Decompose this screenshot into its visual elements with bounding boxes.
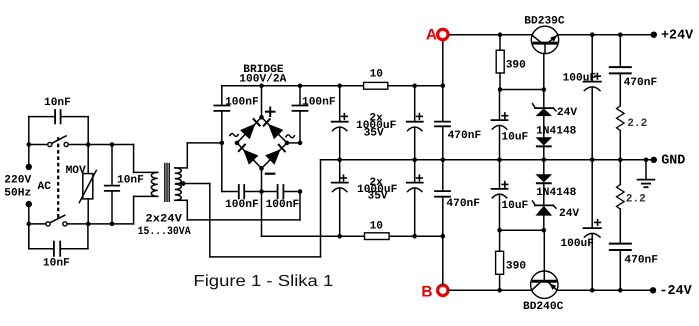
wire bridge - column <box>261 168 263 236</box>
capacitor 470nF mid-bottom <box>435 160 450 236</box>
label 1N4148 top <box>536 125 577 137</box>
node junction bridge+ on rail <box>259 84 264 89</box>
node junction right 100nF on rail <box>298 84 303 89</box>
label 100uF bottom <box>560 238 594 250</box>
label 10nF top <box>44 97 71 109</box>
wire MOV column top <box>87 145 89 174</box>
wire primary bottom lead <box>134 196 158 224</box>
node center tap junction <box>181 181 186 186</box>
label GND <box>661 153 685 168</box>
svg-text:10nF: 10nF <box>44 97 71 109</box>
capacitor 10nF across line <box>105 186 119 191</box>
wire secondary center tap <box>176 183 210 185</box>
svg-text:100nF: 100nF <box>302 96 336 108</box>
label 2x top <box>369 112 383 124</box>
svg-text:470nF: 470nF <box>624 77 658 89</box>
svg-text:470nF: 470nF <box>446 198 480 210</box>
transistor Q1 BD239C <box>531 26 558 53</box>
label 50Hz <box>4 187 31 199</box>
label 2.2 top <box>627 118 647 130</box>
transistor Q2 BD240C <box>531 271 558 298</box>
svg-text:390: 390 <box>506 260 526 272</box>
wire ground rail <box>321 159 654 161</box>
node junction 1000uF-1 top rail <box>337 84 342 89</box>
varistor MOV <box>79 170 96 202</box>
node junction top-left rail <box>27 142 32 147</box>
svg-text:100nF: 100nF <box>225 96 259 108</box>
node A terminal <box>438 29 448 39</box>
label 100V/2A <box>239 73 286 86</box>
wire top bypass loop <box>29 117 88 145</box>
wire top AC line left <box>29 144 48 146</box>
node -24V terminal <box>650 287 656 293</box>
node junction 390 bottom rail <box>497 288 502 293</box>
label 10uF bottom <box>501 200 528 212</box>
label +24V <box>661 29 694 44</box>
svg-text:470nF: 470nF <box>448 130 482 142</box>
svg-text:35V: 35V <box>368 191 388 203</box>
transformer T1 core <box>165 164 169 202</box>
capacitor 10uF top <box>492 90 508 160</box>
node junction 100uF bottom rail <box>590 288 595 293</box>
capacitor 470nF right-bottom <box>610 209 631 290</box>
label 2x bottom <box>369 177 383 189</box>
label MOV <box>66 165 86 177</box>
wire unregulated positive rail <box>222 85 443 87</box>
node +24V terminal <box>651 32 657 38</box>
wire bottom AC line left <box>29 223 46 225</box>
label -24V <box>660 284 693 299</box>
node junction ac-right column <box>298 141 303 146</box>
svg-text:2x24V: 2x24V <box>145 213 182 225</box>
switch S1b bottom pole <box>46 215 67 226</box>
label 100nF top-left <box>225 96 259 108</box>
label 2x24V <box>145 213 182 225</box>
node B terminal <box>438 285 448 295</box>
svg-text:GND: GND <box>661 153 685 168</box>
node junction ac-right on snubber row <box>298 189 303 194</box>
svg-text:10uF: 10uF <box>501 131 528 143</box>
wire center tap to ground rail <box>210 160 321 257</box>
label 35V bottom <box>368 191 388 203</box>
label A <box>426 27 437 44</box>
svg-text:10: 10 <box>370 221 384 233</box>
wire secondary bottom lead <box>175 192 300 220</box>
label BD240C <box>523 301 564 313</box>
label 1000uF bottom <box>357 184 398 196</box>
label 220V <box>4 174 31 186</box>
svg-text:24V: 24V <box>557 107 577 119</box>
svg-text:100nF: 100nF <box>266 199 300 211</box>
label 35V top <box>364 127 384 139</box>
node junction 470nF gnd <box>441 158 446 163</box>
label 10nF bottom <box>43 258 70 270</box>
wire top output rail right <box>559 34 654 36</box>
label 2.2 bottom <box>626 194 646 206</box>
label - bridge <box>266 173 274 175</box>
wire left rail top segment <box>28 117 30 164</box>
diode bridge D2 (ac-right to +) <box>264 119 284 139</box>
node junction 390-10uF bottom <box>497 228 502 233</box>
node junction - on snubber row <box>259 189 264 194</box>
wire left 100nF column <box>221 86 223 143</box>
wire bridge diamond <box>237 117 287 168</box>
node junction diode chain gnd <box>542 158 547 163</box>
diode D5 1N4148 top <box>536 116 553 160</box>
diode bridge D4 (- to ac-right) <box>265 145 285 165</box>
zener diode ZD2 24V <box>533 183 557 230</box>
node junction MOV bottom <box>86 222 91 227</box>
wire bottom AC line right <box>67 223 134 225</box>
capacitor 10nF top bypass <box>55 110 61 123</box>
node junction bottom-left rail <box>27 222 32 227</box>
label 100nF bottom-left <box>225 199 259 211</box>
wire Q1 base down <box>543 54 545 90</box>
svg-text:-24V: -24V <box>660 284 693 299</box>
svg-text:470nF: 470nF <box>624 255 658 267</box>
label 1N4148 bottom <box>536 187 577 199</box>
resistor 2.2 top (zigzag) <box>617 106 625 160</box>
svg-text:15...30VA: 15...30VA <box>138 226 191 238</box>
label 15...30VA <box>138 226 191 238</box>
node GND terminal <box>651 157 657 163</box>
capacitor 10nF bottom bypass <box>54 242 60 256</box>
resistor 390 bottom <box>496 230 504 290</box>
wire right 100nF column <box>299 86 301 143</box>
diode bridge D3 (- to ac-left) <box>239 145 259 165</box>
wire base node line top <box>500 89 544 91</box>
wire top AC line right <box>68 144 133 146</box>
resistor 10 bottom <box>365 233 390 240</box>
label 390 bottom <box>506 260 526 272</box>
node junction 390 top rail <box>498 32 503 37</box>
svg-text:100uF: 100uF <box>560 238 594 250</box>
label 390 top <box>506 60 526 72</box>
capacitor 100nF bridge top-left <box>214 106 229 111</box>
label 470nF right-top <box>624 77 658 89</box>
label ~ left <box>229 134 238 137</box>
label 10uF top <box>501 131 528 143</box>
node junction 10uF gnd <box>497 158 502 163</box>
svg-text:Figure 1 - Slika 1: Figure 1 - Slika 1 <box>193 273 333 290</box>
capacitor 100nF bridge bottom-right <box>278 185 284 198</box>
wire secondary top lead <box>175 143 222 168</box>
node junction 470nF top rail <box>618 32 623 37</box>
wire left rail bottom segment <box>28 207 30 248</box>
svg-text:MOV: MOV <box>66 165 86 177</box>
wire Q2 base up <box>543 230 545 271</box>
capacitor 2x1000uF top-left C5 <box>332 86 348 160</box>
wire B to rail <box>442 236 444 284</box>
node junction B column on rail <box>441 234 446 239</box>
capacitor 2x1000uF bottom-right C8 <box>407 160 423 236</box>
svg-text:100V/2A: 100V/2A <box>239 73 286 86</box>
transformer T1 primary winding <box>151 172 158 196</box>
label 470nF mid-top <box>448 130 482 142</box>
capacitor 100nF bridge top-right <box>293 106 308 111</box>
node junction 100uF top rail <box>590 32 595 37</box>
label 100uF top <box>563 73 597 85</box>
label B <box>421 284 432 301</box>
node junction 2.2 gnd <box>618 158 623 163</box>
node junction earth gnd <box>644 158 649 163</box>
svg-text:24V: 24V <box>559 208 579 220</box>
node bridge - vertex <box>259 166 264 171</box>
wire base node line bottom <box>500 229 544 231</box>
wire MOV column bottom <box>87 199 89 224</box>
svg-text:100uF: 100uF <box>563 73 597 85</box>
node 220V AC neutral terminal <box>26 201 32 207</box>
svg-text:50Hz: 50Hz <box>4 187 31 199</box>
svg-text:10nF: 10nF <box>117 175 144 187</box>
node junction 1000uF-3 bottom rail <box>337 234 342 239</box>
wire bottom output rail left <box>449 289 531 291</box>
node junction A column on rail <box>441 84 446 89</box>
label 100nF bottom-right <box>266 199 300 211</box>
switch mechanical link (dashed) <box>57 137 59 218</box>
label AC <box>38 181 52 193</box>
label 24V bottom <box>559 208 579 220</box>
svg-text:10nF: 10nF <box>43 258 70 270</box>
wire unregulated negative rail <box>262 235 443 237</box>
svg-text:2.2: 2.2 <box>627 118 647 130</box>
svg-text:2.2: 2.2 <box>626 194 646 206</box>
node junction 1000uF-1 gnd <box>337 158 342 163</box>
ground symbol <box>638 160 655 187</box>
node junction 1000uF-2 gnd <box>412 158 417 163</box>
label 470nF mid-bottom <box>446 198 480 210</box>
label 100nF top-right <box>302 96 336 108</box>
wire bridge + to rail <box>261 86 263 117</box>
svg-text:1N4148: 1N4148 <box>536 187 577 199</box>
node junction 1000uF-2 top rail <box>412 84 417 89</box>
wire bottom bypass loop <box>29 224 88 249</box>
label Figure 1 - Slika 1 <box>193 273 333 290</box>
transformer T1 secondary winding <box>175 168 182 200</box>
svg-text:10: 10 <box>370 68 384 80</box>
capacitor 10uF bottom <box>492 160 508 230</box>
svg-text:10uF: 10uF <box>501 200 528 212</box>
node 220V AC live terminal <box>26 164 32 170</box>
switch S1a top pole <box>48 136 69 147</box>
svg-text:AC: AC <box>38 181 52 193</box>
resistor 390 top <box>496 35 504 90</box>
wire bottom output rail right <box>558 289 653 291</box>
capacitor 470nF mid-top <box>435 86 450 160</box>
node bridge ac-right vertex <box>285 141 290 146</box>
diode D6 1N4148 bottom <box>536 160 553 184</box>
wire top output rail left <box>449 34 531 36</box>
label 470nF right-bottom <box>624 255 658 267</box>
capacitor 470nF right-top <box>610 35 631 106</box>
label BRIDGE <box>243 64 284 76</box>
capacitor 2x1000uF top-right C6 <box>407 86 423 160</box>
label 10nF mid <box>117 175 144 187</box>
label 10 bottom <box>370 221 384 233</box>
label + bridge <box>266 108 275 117</box>
svg-text:A: A <box>426 27 437 44</box>
resistor 2.2 bottom (zigzag) <box>617 160 625 209</box>
svg-text:+24V: +24V <box>661 29 694 44</box>
wire bottom snubber row <box>222 143 300 192</box>
label ~ right <box>286 135 295 138</box>
svg-text:35V: 35V <box>364 127 384 139</box>
label 1000uF top <box>356 120 397 132</box>
node junction 470nF bottom rail <box>618 288 623 293</box>
capacitor 100uF bottom <box>584 160 601 290</box>
node junction secondary-top to bridge <box>220 141 225 146</box>
node junction MOV top <box>86 142 91 147</box>
node junction 10nF-3 bottom <box>110 222 115 227</box>
wire 10nF-3 column top <box>111 145 113 186</box>
wire A to rail <box>442 41 444 85</box>
capacitor 2x1000uF bottom-left C7 <box>332 160 348 236</box>
svg-text:BD239C: BD239C <box>524 15 565 27</box>
wire primary top lead <box>134 145 158 173</box>
node junction 390-10uF top <box>498 87 503 92</box>
svg-text:100nF: 100nF <box>225 199 259 211</box>
node bridge + vertex <box>259 115 264 120</box>
svg-text:B: B <box>421 284 432 301</box>
wire AC node links <box>287 142 300 144</box>
node junction 1000uF-4 bottom rail <box>412 234 417 239</box>
node junction 100uF gnd <box>590 158 595 163</box>
wire 10nF-3 column bottom <box>111 191 113 224</box>
zener diode ZD1 24V <box>533 90 557 117</box>
diode bridge D1 (ac-left to +) <box>240 119 260 139</box>
resistor 10 top <box>364 82 388 89</box>
svg-text:220V: 220V <box>4 174 31 186</box>
svg-text:1N4148: 1N4148 <box>536 125 577 137</box>
node junction base top <box>542 87 547 92</box>
node junction 10nF-3 top <box>110 142 115 147</box>
svg-text:BD240C: BD240C <box>523 301 564 313</box>
label 24V top <box>557 107 577 119</box>
capacitor 100nF bridge bottom-left <box>239 185 244 198</box>
node junction base bottom <box>542 228 547 233</box>
svg-text:390: 390 <box>506 60 526 72</box>
label BD239C <box>524 15 565 27</box>
label 10 top <box>370 68 384 80</box>
node bridge ac-left vertex <box>235 141 240 146</box>
capacitor 100uF top <box>584 35 601 160</box>
